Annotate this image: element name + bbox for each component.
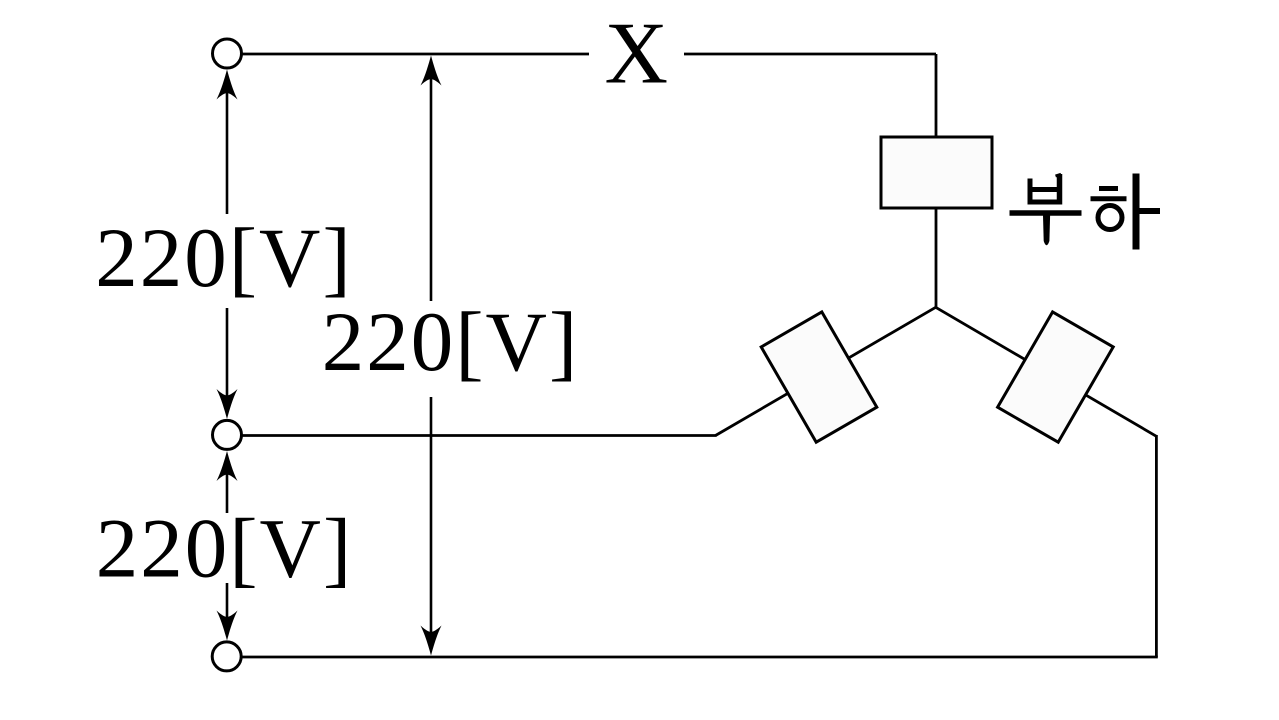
- svg-text:X: X: [605, 6, 669, 103]
- svg-text:220[V]: 220[V]: [95, 211, 353, 305]
- svg-text:220[V]: 220[V]: [96, 502, 354, 596]
- svg-text:220[V]: 220[V]: [322, 295, 580, 389]
